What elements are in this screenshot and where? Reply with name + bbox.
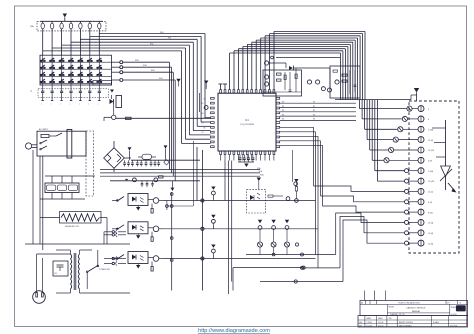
svg-text:KS1: KS1 <box>168 38 171 40</box>
filter capacitor C11 <box>53 261 68 276</box>
IC1 left pin labels <box>202 98 206 134</box>
svg-text:K.S.KIM: K.S.KIM <box>367 322 373 324</box>
svg-text:c: c <box>60 104 61 106</box>
connector CN1 dashed outline <box>409 101 459 253</box>
line filter block <box>37 128 86 156</box>
svg-text:PLASTIC PACKAGE DWG: PLASTIC PACKAGE DWG <box>398 302 420 305</box>
svg-text:DTQ-29U4SSN: DTQ-29U4SSN <box>240 124 254 126</box>
microcontroller IC1 <box>211 90 280 155</box>
wire IR data line with resistor <box>116 117 211 119</box>
node diamond <box>164 160 169 165</box>
wire IC right to bottom rows <box>280 127 405 268</box>
transistors Q1-Q6 <box>383 106 418 163</box>
svg-text:MODEL: MODEL <box>389 307 395 309</box>
optocoupler row 2 <box>112 215 318 242</box>
svg-text:R4: R4 <box>313 119 315 121</box>
capacitor C10 tall <box>67 130 72 159</box>
svg-text:IC1: IC1 <box>245 119 249 122</box>
resistor network RA1 <box>31 21 107 31</box>
driver transistors Q8-Q10 <box>246 220 315 283</box>
capacitor bank <box>123 160 200 166</box>
svg-text:R2: R2 <box>313 110 315 112</box>
svg-text:RA: RA <box>31 25 35 28</box>
capacitor C8 at IC top <box>219 84 228 90</box>
svg-text:R4: R4 <box>282 119 284 121</box>
svg-text:POWER SW: POWER SW <box>99 269 110 271</box>
svg-text:10 (6): 10 (6) <box>428 140 434 142</box>
transformer T1 <box>25 156 130 293</box>
wire left rail <box>33 150 40 244</box>
svg-text:K3: K3 <box>202 113 204 115</box>
svg-text:97.04.22: 97.04.22 <box>378 325 384 327</box>
shield dashed box <box>86 131 94 196</box>
wire staircase to CN1 rows <box>360 100 406 182</box>
svg-text:R3: R3 <box>282 114 284 116</box>
svg-text:R1: R1 <box>282 106 284 108</box>
keyboard switches S1-S28 <box>40 58 101 84</box>
optocoupler row 3 <box>112 245 316 272</box>
svg-text:AC INPUT: AC INPUT <box>39 128 49 131</box>
wire main data bus <box>230 32 411 100</box>
reset circuit cluster <box>263 56 340 96</box>
svg-text:K7: K7 <box>202 132 204 134</box>
svg-text:DEGAUSS COIL: DEGAUSS COIL <box>65 225 79 228</box>
optocoupler row 1 <box>112 179 316 213</box>
keyboard matrix block <box>40 55 112 85</box>
svg-text:K0: K0 <box>204 98 206 100</box>
svg-text:14 (6): 14 (6) <box>428 243 434 245</box>
LED D20 <box>432 120 457 193</box>
ground cluster below IC1 <box>238 155 254 168</box>
svg-text:K5: K5 <box>202 123 204 125</box>
bridge rectifier D1-D4 <box>104 141 131 172</box>
wire IC right output lines <box>280 102 356 121</box>
power arrow VCC mid2 <box>164 145 168 160</box>
wire keyboard scan bus <box>43 32 211 291</box>
power VCC arrow at CN1 <box>411 88 419 101</box>
connector pins P1-P4 and wires <box>112 60 176 181</box>
wire bottom crossings <box>166 141 306 291</box>
svg-text:c: c <box>70 104 71 106</box>
wire column drops <box>43 31 100 55</box>
svg-text:B.C.LEE: B.C.LEE <box>367 325 372 327</box>
svg-text:4 (9): 4 (9) <box>428 161 432 163</box>
svg-text:10 (8): 10 (8) <box>428 233 434 235</box>
wire lower CN1 feeds <box>336 213 405 282</box>
svg-text:A4: A4 <box>361 302 363 305</box>
connector pin circles <box>418 106 435 247</box>
reset transistor Q7 <box>200 81 209 113</box>
wire lower feed lines <box>297 253 343 282</box>
svg-text:R3: R3 <box>313 114 315 116</box>
degaussing coil L1 <box>40 212 107 245</box>
voltage regulators IC3 IC4 IC5 <box>40 176 95 199</box>
power arrow VCC mid <box>128 147 132 160</box>
svg-text:C11: C11 <box>54 273 57 275</box>
svg-text:1/1: 1/1 <box>459 303 461 305</box>
AC plug P1 <box>33 254 71 303</box>
capacitor row C1-C7 <box>30 85 109 106</box>
svg-text:KS0: KS0 <box>160 32 163 34</box>
svg-text:97.04.20: 97.04.20 <box>378 322 384 324</box>
title block <box>358 291 468 328</box>
svg-text:KEY B'D: KEY B'D <box>94 83 102 85</box>
svg-text:SHEET: SHEET <box>451 307 456 309</box>
svg-text:11 (45): 11 (45) <box>428 150 435 152</box>
svg-text:7 (08): 7 (08) <box>428 130 434 132</box>
wire lines under IC <box>100 167 264 177</box>
secondary supply rail <box>110 176 200 191</box>
svg-text:R0: R0 <box>282 102 284 104</box>
watermark URL <box>198 328 270 334</box>
power arrow on key line <box>176 79 180 87</box>
svg-text:KS2: KS2 <box>150 44 153 46</box>
svg-text:c: c <box>98 104 99 106</box>
svg-text:K4: K4 <box>204 118 206 120</box>
svg-text:http://www.diagramasde.com: http://www.diagramasde.com <box>198 328 270 334</box>
svg-text:7 (08): 7 (08) <box>428 171 434 173</box>
power switch SW1 <box>86 250 110 289</box>
svg-text:CHK: CHK <box>389 318 392 320</box>
wire IC bottom drops <box>221 155 274 295</box>
regulator IC2 <box>138 154 156 159</box>
connector pair CN2 <box>104 230 126 244</box>
svg-text:K6: K6 <box>204 127 206 129</box>
connector pair CN3 <box>104 256 126 265</box>
svg-text:DTQ-29U4: DTQ-29U4 <box>450 325 457 327</box>
switch-mode sub-circuit <box>247 150 298 213</box>
IR receiver U2 <box>104 90 122 122</box>
svg-text:c: c <box>79 104 80 106</box>
svg-text:R1: R1 <box>313 106 315 108</box>
svg-text:c: c <box>88 104 89 106</box>
svg-text:R2: R2 <box>282 110 284 112</box>
svg-text:REMOTE CONTROL: REMOTE CONTROL <box>399 322 413 324</box>
lamp circles lower rows <box>405 169 419 245</box>
svg-text:=(: =( <box>30 91 32 93</box>
svg-text:10 (45): 10 (45) <box>428 181 435 183</box>
svg-text:11 (4): 11 (4) <box>428 192 433 194</box>
svg-text:K1: K1 <box>202 103 204 105</box>
svg-text:DAEWOO SERVICE: DAEWOO SERVICE <box>406 307 426 310</box>
power VCC symbol <box>63 14 67 22</box>
label KEY BOARD <box>93 81 112 86</box>
svg-text:13 (4): 13 (4) <box>428 223 434 225</box>
svg-text:4 (8): 4 (8) <box>428 202 432 204</box>
svg-text:R0: R0 <box>313 102 315 104</box>
protect circuit cluster <box>330 66 360 98</box>
svg-text:97.04.26: 97.04.26 <box>451 314 457 316</box>
svg-text:c: c <box>51 104 52 106</box>
svg-text:c: c <box>41 104 42 106</box>
AC plug J1 <box>26 143 38 149</box>
svg-text:8 (11): 8 (11) <box>428 212 433 214</box>
